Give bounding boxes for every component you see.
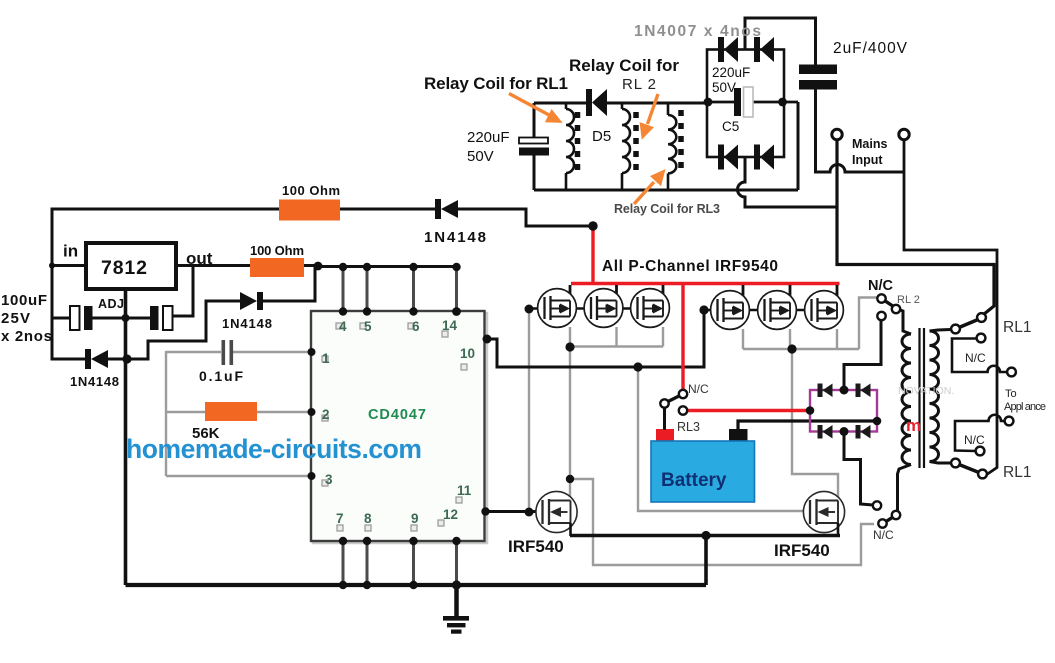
wire diode1 row	[52, 358, 87, 361]
svg-text:50V: 50V	[467, 148, 494, 165]
svg-text:C5: C5	[722, 119, 739, 134]
node charger bottom AC	[840, 427, 849, 436]
svg-text:1N4148: 1N4148	[70, 374, 119, 389]
relay RL1 top arm	[959, 320, 978, 328]
ground symbol	[443, 616, 469, 634]
wire red RL3 to charger bridge	[687, 409, 810, 412]
svg-text:12: 12	[443, 507, 458, 522]
wire pin9 bottom	[412, 541, 415, 585]
node left drain bus	[565, 342, 574, 351]
node dots left section	[49, 262, 534, 590]
svg-text:2: 2	[322, 407, 330, 422]
wire IRF540 right source to bus	[837, 523, 840, 536]
wire top pin bus	[318, 265, 457, 268]
svg-text:Mains: Mains	[852, 137, 887, 151]
wire mains right down	[904, 140, 997, 475]
diode charger top-left	[818, 384, 833, 398]
relay RL1 top arm contact	[977, 313, 986, 322]
svg-text:out: out	[186, 249, 213, 268]
resistor 100 Ohm R1	[279, 200, 340, 221]
svg-text:N/C: N/C	[964, 433, 985, 447]
svg-text:CD4047: CD4047	[368, 407, 426, 423]
svg-text:100 Ohm: 100 Ohm	[250, 243, 304, 258]
relay RL1 bottom arm	[959, 465, 979, 473]
wire battery negative to charger bridge	[738, 421, 877, 430]
switch RL3 arm	[668, 396, 680, 402]
wire RL1 bottom NC loop to appliance terminal	[955, 415, 1005, 451]
wire pin14 top	[455, 266, 458, 311]
relay RL1 top pivot	[951, 325, 960, 334]
diode 1N4148 D-mid	[240, 292, 263, 310]
svg-text:5: 5	[364, 319, 372, 334]
svg-text:N/C: N/C	[688, 382, 709, 396]
switch NC bottom pivot	[892, 511, 900, 519]
wire right drain bus down to IRF540 right drain	[792, 349, 838, 500]
transistor Q7 IRF540 N-MOSFET	[536, 491, 577, 532]
wire bridge right output down to rail	[797, 102, 800, 190]
wire diode to red node	[457, 209, 591, 226]
capacitor 0.1uF plates	[222, 340, 234, 365]
wire left P gate chain	[529, 307, 546, 310]
svg-text:RL 2: RL 2	[897, 294, 920, 306]
wire red feed from diode node	[591, 226, 594, 284]
wire bridge mid line	[707, 101, 734, 104]
svg-text:NOVATION.: NOVATION.	[898, 385, 954, 397]
diode 1N4007 bottom-left	[718, 145, 738, 170]
wire left gate bus down to IRF540 left gate node	[528, 309, 530, 512]
node source bus junction	[701, 531, 710, 540]
wire RL3 arm to battery positive	[663, 407, 666, 430]
svg-text:All P-Channel IRF9540: All P-Channel IRF9540	[602, 258, 778, 275]
wire pin5 top	[366, 267, 369, 311]
arrow to RL2 coil	[642, 94, 658, 136]
svg-text:IRF540: IRF540	[774, 541, 830, 560]
svg-text:10: 10	[460, 346, 475, 361]
svg-text:N/C: N/C	[868, 278, 894, 294]
svg-text:220uF: 220uF	[467, 129, 510, 146]
svg-text:Input: Input	[852, 153, 883, 167]
terminal appliance bottom	[1005, 417, 1014, 426]
battery positive terminal	[656, 429, 674, 442]
wire charger top AC to RL2 contact	[844, 320, 881, 391]
P-MOSFET source stubs to red bus	[570, 285, 837, 303]
wire right P gate chain	[704, 309, 720, 312]
svg-text:N/C: N/C	[965, 351, 986, 365]
transistor Q8 IRF540 N-MOSFET	[803, 491, 844, 532]
svg-text:Relay Coil for: Relay Coil for	[569, 56, 679, 75]
wire mosfet source bus	[570, 534, 840, 537]
diode 1N4007 top-left	[718, 37, 738, 62]
svg-text:2uF/400V: 2uF/400V	[833, 40, 908, 57]
transistor Q4 IRF9540 P-MOSFET	[711, 291, 750, 330]
capacitor 100uF C-left2	[150, 306, 159, 330]
wire pin11 to IRF540 left gate	[485, 510, 541, 513]
svg-text:100uF: 100uF	[1, 292, 47, 309]
charger bridge magenta box	[810, 390, 877, 432]
wire bus jog up to source bus	[704, 536, 708, 586]
transformer core lines	[918, 328, 920, 468]
switch RL2 arm	[885, 301, 894, 307]
wire left P-group drain bus	[569, 327, 571, 347]
node left drain branch	[566, 475, 574, 483]
wire bridge bottom with hop over rail	[738, 157, 838, 207]
svg-text:220uF: 220uF	[712, 65, 750, 80]
svg-text:8: 8	[364, 511, 372, 526]
wire relay top rail	[534, 102, 589, 105]
wire out branch down to cap2	[171, 266, 193, 317]
svg-text:m: m	[906, 416, 921, 435]
wire RL1 top NC loop to appliance terminal	[952, 339, 1007, 373]
switch RL2 NC contact	[877, 294, 885, 302]
wire red drop to RL3 switch	[681, 284, 684, 391]
svg-text:D5: D5	[592, 128, 611, 145]
wire right P-group drain bus	[742, 329, 744, 349]
svg-text:RL 2: RL 2	[622, 76, 656, 93]
battery negative terminal	[729, 429, 748, 442]
transistor Q5 IRF9540 P-MOSFET	[758, 291, 797, 330]
wire pin3 line	[166, 475, 313, 477]
svg-text:To: To	[1005, 388, 1017, 400]
transformer primary winding	[898, 310, 912, 512]
svg-text:Battery: Battery	[661, 470, 727, 491]
capacitor 220uF left plates	[519, 138, 548, 144]
terminal appliance top	[1007, 368, 1016, 377]
svg-text:100 Ohm: 100 Ohm	[282, 183, 340, 198]
transistor Q3 IRF9540 P-MOSFET	[631, 289, 670, 328]
svg-text:RL1: RL1	[1003, 464, 1031, 481]
diode charger top-right	[856, 384, 871, 398]
svg-text:1N4148: 1N4148	[424, 229, 486, 246]
switch RL2 pivot	[892, 305, 900, 313]
diode charger bottom-left	[818, 425, 833, 439]
svg-text:in: in	[63, 242, 78, 261]
battery body	[651, 441, 755, 502]
transformer secondary winding	[930, 330, 951, 464]
regulator 7812 box U2	[86, 243, 176, 289]
svg-text:6: 6	[412, 319, 420, 334]
wire 2uF down and over to mains right	[816, 90, 905, 173]
node charger top AC	[840, 386, 849, 395]
svg-text:Relay Coil for RL3: Relay Coil for RL3	[614, 202, 720, 216]
diode 1N4007 bottom-right	[754, 145, 774, 170]
relay coil RL2	[622, 103, 630, 190]
node bridge right output	[778, 98, 787, 107]
node pin10 wire junctions	[633, 362, 642, 371]
diode 1N4148 D-left	[85, 349, 108, 369]
wire bridge top to 2uF	[745, 18, 816, 65]
IC CD4047 U1 body	[313, 313, 487, 543]
wire ground stem	[454, 585, 459, 618]
relay RL1 bottom NC contact	[976, 447, 985, 456]
bridge rectifier 1N4007 box	[707, 50, 784, 158]
svg-text:RL3: RL3	[677, 420, 700, 434]
wire drain node to lower NC contact	[570, 479, 874, 565]
wire pin10 net	[487, 310, 704, 367]
svg-text:x 2nos: x 2nos	[1, 328, 52, 345]
relay coil RL3	[668, 103, 676, 190]
svg-text:25V: 25V	[1, 310, 30, 327]
wire pin7 bottom	[342, 541, 345, 585]
resistor 100 Ohm R2	[250, 258, 304, 277]
node red feed	[588, 221, 597, 230]
wire diode2 path from ADJ junction	[127, 301, 240, 359]
wire RC network left vertical	[165, 351, 167, 476]
terminal mains left	[832, 129, 842, 139]
switch RL3 pivot	[660, 399, 668, 407]
node bridge left output	[704, 98, 713, 107]
terminal mains right	[899, 129, 909, 139]
capacitor C5 plates	[734, 88, 741, 116]
diode 1N4148 D-top	[435, 199, 458, 219]
switch RL3 contact lower	[679, 406, 687, 414]
wire pin4 top	[342, 267, 345, 311]
wire bottom pin bus	[126, 583, 707, 587]
wire pin1 RC line gray	[166, 351, 221, 353]
svg-text:IRF540: IRF540	[508, 537, 564, 556]
wire pin10 net to IRF540 right gate	[638, 367, 809, 511]
relay RL1 top NC contact	[977, 334, 986, 343]
switch NC bottom contact	[878, 519, 886, 527]
switch NC bottom N/O contact	[873, 501, 881, 509]
arrow to RL1 coil	[509, 94, 559, 122]
capacitor 100uF C-left1	[70, 306, 80, 330]
node charger positive out	[806, 406, 815, 415]
svg-text:50V: 50V	[712, 80, 736, 95]
svg-text:ADJ: ADJ	[98, 297, 124, 311]
wire top-left horizontal rail	[51, 208, 281, 211]
switch RL3 contact top	[679, 390, 687, 398]
wire pin8 bottom	[366, 541, 369, 585]
svg-text:0.1uF: 0.1uF	[199, 368, 243, 384]
svg-text:1: 1	[322, 351, 330, 366]
wire drain bus down to IRF540 left drain	[569, 347, 571, 501]
svg-text:7812: 7812	[101, 257, 147, 279]
transistor Q6 IRF9540 P-MOSFET	[805, 291, 844, 330]
wire red positive bus	[571, 282, 840, 285]
diode charger bottom-right	[856, 425, 871, 439]
relay RL1 bottom pivot	[951, 459, 960, 468]
wire cap 220uF stubs	[533, 103, 536, 138]
diode 1N4007 top-right	[754, 37, 774, 62]
svg-text:Relay Coil for RL1: Relay Coil for RL1	[424, 74, 568, 93]
wire pin2 56K line	[166, 411, 206, 413]
wire out to resistor	[176, 264, 251, 267]
wire in	[52, 264, 86, 267]
wire pin12 bottom	[455, 541, 458, 585]
svg-text:homemade-circuits.com: homemade-circuits.com	[126, 434, 422, 464]
svg-text:N/C: N/C	[873, 528, 894, 542]
arrow to RL3 coil	[634, 172, 663, 204]
wire cap2 connections	[125, 317, 151, 320]
transistor Q2 IRF9540 P-MOSFET	[584, 289, 623, 328]
svg-text:1N4007 x 4nos: 1N4007 x 4nos	[634, 23, 761, 40]
svg-text:Appl ance: Appl ance	[1004, 401, 1046, 413]
wire relay bottom rail	[534, 189, 798, 192]
svg-text:3: 3	[325, 472, 333, 487]
wire ADJ vertical	[124, 290, 128, 585]
diode D5	[586, 89, 607, 116]
wire right drain bus up to RL2 NC contact	[859, 298, 877, 350]
svg-text:11: 11	[457, 483, 472, 498]
relay RL1 bottom arm contact	[978, 470, 987, 479]
relay coil RL1	[566, 103, 574, 190]
svg-text:1N4148: 1N4148	[222, 316, 272, 331]
core dashes RL3	[678, 110, 684, 172]
node right drain bus	[787, 344, 796, 353]
wire mains left down	[837, 140, 994, 315]
core dashes RL1	[575, 112, 581, 170]
svg-text:7: 7	[336, 511, 344, 526]
core dashes RL2	[633, 112, 639, 170]
switch NC bottom arm	[886, 517, 893, 522]
transistor Q1 IRF9540 P-MOSFET	[538, 289, 577, 328]
svg-text:RL1: RL1	[1003, 319, 1031, 336]
resistor 56K	[205, 402, 257, 421]
wire IRF540 left source to bus	[569, 523, 572, 536]
IC pin pads	[322, 323, 467, 531]
wire left vertical	[51, 208, 54, 361]
wire cap1 connections	[52, 317, 71, 320]
svg-text:4: 4	[339, 319, 347, 334]
switch RL2 lower contact	[877, 312, 885, 320]
capacitor 2uF/400V plates	[799, 65, 837, 75]
svg-text:14: 14	[442, 318, 458, 333]
node charger negative out	[873, 417, 882, 426]
svg-text:9: 9	[411, 511, 419, 526]
wire charger bottom AC to NC switch	[844, 432, 873, 506]
wire pin6 top	[412, 267, 415, 311]
